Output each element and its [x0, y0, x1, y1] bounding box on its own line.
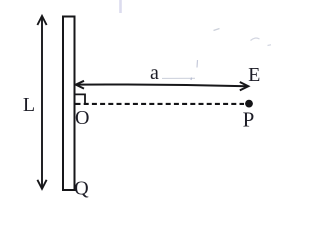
right-angle marker at O [76, 94, 86, 103]
point P dot [245, 100, 253, 108]
svg-text:a: a [150, 62, 159, 84]
faint scan artifact vertical tick 3 [196, 60, 199, 68]
length dimension arrow L (vertical double-headed) [37, 16, 46, 189]
faint scan artifact tick 1 [214, 29, 220, 31]
faint scan artifact arc 2 [251, 38, 260, 40]
faint scan artifact vertical smudge 0 [119, 0, 122, 13]
svg-text:P: P [243, 108, 255, 132]
faint scan artifact tick 6 [268, 44, 272, 47]
faint scan artifact underline 4 [162, 77, 195, 79]
svg-text:L: L [23, 94, 35, 116]
charged rod (thin vertical rectangle) [63, 17, 75, 191]
dashed line from O to P [76, 103, 245, 105]
svg-text:Q: Q [74, 178, 89, 200]
svg-text:O: O [75, 107, 89, 129]
svg-text:E: E [248, 64, 260, 86]
faint scan artifact tick 5 [190, 78, 193, 81]
distance arrow a with E direction (horizontal double-headed) [76, 81, 249, 91]
